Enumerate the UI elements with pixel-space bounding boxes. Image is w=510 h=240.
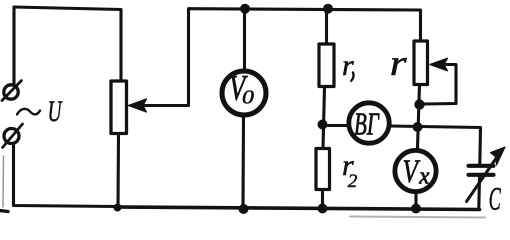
- junction dot (bottom rail / V0): [239, 204, 249, 214]
- wire: V0 bottom lead: [241, 116, 245, 208]
- svg-text:x: x: [418, 163, 430, 190]
- wire: Vx bottom lead: [414, 192, 417, 208]
- wire: left loop bottom: [14, 145, 118, 207]
- wire: main top rail: [189, 9, 421, 41]
- svg-text:r: r: [390, 43, 407, 83]
- terminal (top input jack): [2, 81, 22, 101]
- voltmeter V0: [222, 71, 266, 115]
- label ~ (AC sign): [17, 109, 40, 115]
- wire: capacitor bottom lead: [477, 177, 481, 209]
- arrow (variable capacitor): [467, 147, 506, 202]
- wire: potentiometer bottom lead: [116, 134, 120, 207]
- resistor r1: [319, 44, 334, 87]
- rheostat wiper loop on r: [423, 58, 456, 104]
- wire: node A to generator: [327, 124, 349, 127]
- svg-text:U: U: [48, 96, 64, 128]
- scan artifact: faint ghost line under bottom rail: [350, 217, 485, 218]
- wire: r bottom lead down to Vx: [418, 85, 420, 148]
- wire: r2 bottom lead: [321, 190, 324, 208]
- resistor r2: [316, 149, 330, 190]
- wire: r1 to r2: [323, 87, 325, 149]
- wire: generator to node B and to capacitor branch: [390, 126, 481, 164]
- junction dot (top rail / V0): [240, 4, 250, 14]
- wire: r1 top lead: [325, 10, 328, 45]
- capacitor C bottom plate: [469, 173, 494, 177]
- scan artifact: dark mark at bottom-left margin: [0, 211, 8, 212]
- potentiometer R (voltage divider): [111, 81, 127, 134]
- junction dot (bottom rail / r2): [318, 204, 328, 214]
- junction dot (bottom rail / Vx): [411, 204, 421, 214]
- junction dot (bottom rail / potentiometer): [114, 204, 122, 212]
- wire: main bottom rail: [117, 207, 480, 210]
- wire: left loop top (source to potentiometer top): [14, 7, 121, 85]
- junction dot (node B: cross of Vx lead and generator wire): [413, 122, 423, 132]
- wire: V0 top lead: [243, 10, 246, 71]
- node A (r1/r2/generator junction): [318, 120, 328, 130]
- svg-text:C: C: [489, 181, 501, 217]
- svg-text:0: 0: [242, 85, 254, 108]
- wiper arrow of potentiometer: [129, 10, 189, 113]
- junction dot (r bottom / wiper): [414, 99, 424, 109]
- generator ВГ (audio oscillator): [349, 103, 389, 143]
- capacitor C top plate: [469, 164, 494, 168]
- terminal (bottom input jack): [3, 124, 23, 148]
- scan artifact: faint page-edge line bottom left: [2, 156, 5, 207]
- svg-text:ВГ: ВГ: [354, 106, 380, 141]
- svg-text:2: 2: [348, 171, 358, 192]
- junction dot (top rail / r1): [323, 4, 333, 14]
- resistor r (rheostat body): [414, 41, 428, 85]
- voltmeter Vx: [395, 150, 436, 191]
